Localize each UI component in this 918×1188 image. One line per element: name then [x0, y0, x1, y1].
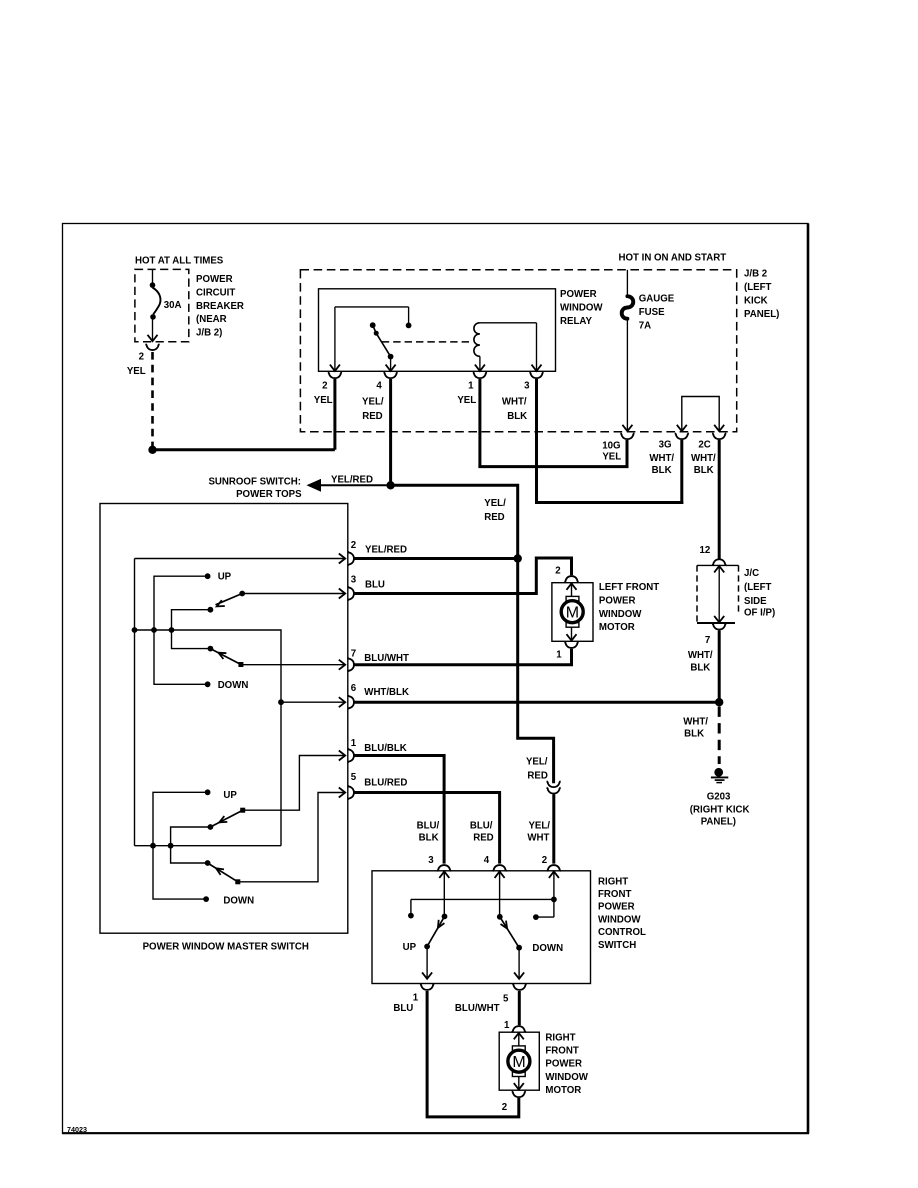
arrow into master pin 6: [339, 697, 345, 707]
connector pin 10G: [620, 433, 634, 439]
connector master pin 5: [348, 786, 354, 800]
arrow into relay pin 3: [532, 365, 542, 371]
master pivot bracket upper section: [172, 610, 211, 649]
control down lever: [500, 917, 519, 948]
arrow down to pin 1 inside motor: [571, 627, 573, 640]
svg-text:DOWN: DOWN: [218, 680, 249, 691]
wire master pin 2 YEL/RED: [354, 557, 518, 560]
relay fixed contact dot: [406, 323, 412, 329]
wire BLU master pin 3 to left motor: [354, 558, 571, 594]
arrow up to control pin 4: [495, 872, 505, 878]
svg-text:YEL: YEL: [127, 366, 146, 377]
connector master pin 6: [348, 695, 354, 709]
connector control pin 3: [437, 865, 451, 871]
svg-text:(LEFT: (LEFT: [744, 282, 772, 293]
right motor armature circle: [508, 1050, 530, 1072]
connector control pin 1: [420, 984, 434, 990]
wire relay pin 3 WHT/BLK down: [535, 379, 538, 503]
master pin 3 internal lead: [242, 593, 344, 595]
wire BLU control pin 1 to right motor pin 2: [427, 991, 519, 1117]
connector master pin 2: [348, 552, 354, 566]
wire YEL horizontal to relay pin 2: [153, 448, 335, 451]
svg-text:POWER: POWER: [545, 1059, 582, 1070]
master bus wire upper section: [135, 630, 282, 846]
connector master pin 1: [348, 749, 354, 763]
control pin 3 internal lead: [443, 872, 445, 917]
svg-text:7A: 7A: [639, 321, 651, 332]
svg-text:POWER: POWER: [196, 274, 233, 285]
arrow down to pin 7 inside J/C: [714, 616, 724, 622]
junction dot bracket to bus: [151, 627, 157, 633]
wire YEL/WHT inline connector to control switch: [552, 794, 555, 863]
master pin 6 internal lead: [281, 701, 344, 703]
arrow into J/B2 pin 10G: [622, 425, 632, 431]
svg-text:J/B 2: J/B 2: [744, 269, 767, 280]
svg-text:SWITCH: SWITCH: [598, 940, 636, 951]
svg-text:DOWN: DOWN: [532, 943, 563, 954]
svg-text:UP: UP: [223, 790, 237, 801]
svg-text:BREAKER: BREAKER: [196, 301, 244, 312]
svg-text:OF I/P): OF I/P): [744, 607, 775, 618]
svg-text:BLU/RED: BLU/RED: [364, 778, 407, 789]
junction dot control bus to pin 2: [551, 897, 557, 903]
wire relay pin 1 YEL down: [478, 379, 481, 467]
svg-text:BLU/: BLU/: [417, 821, 440, 832]
control pin 5 internal lead: [518, 948, 520, 979]
relay pin 1 internal lead: [479, 356, 481, 370]
control pin 4 internal lead: [499, 872, 501, 917]
svg-text:WHT/: WHT/: [649, 453, 674, 464]
master pivot bracket lower section: [171, 827, 211, 863]
arrow up to pin 1 inside right motor: [514, 1033, 524, 1039]
left motor upper terminal: [566, 596, 579, 601]
wire 2C WHT/BLK down to J/C: [718, 440, 721, 559]
junction block J/B 2 dashed box: [300, 270, 736, 432]
svg-text:2C: 2C: [698, 440, 710, 451]
left front power window motor box: [552, 583, 593, 642]
junction dot WHT/BLK to ground: [715, 698, 723, 706]
power window relay box: [319, 289, 556, 372]
relay actuation dashed link: [382, 341, 471, 343]
wire WHT/BLK master pin 6 to ground junction: [354, 701, 719, 704]
junction dot pin 6 branch: [278, 699, 284, 705]
svg-text:G203: G203: [707, 791, 731, 802]
svg-text:YEL/: YEL/: [528, 821, 550, 832]
right front power window control switch box: [372, 871, 591, 984]
svg-text:CIRCUIT: CIRCUIT: [196, 287, 235, 298]
connector relay pin 2: [328, 372, 342, 378]
gauge fuse 7A element: [622, 296, 634, 319]
connector relay pin 4: [384, 372, 398, 378]
svg-text:BLU/WHT: BLU/WHT: [364, 653, 409, 664]
svg-text:74023: 74023: [67, 1125, 87, 1134]
junction dot pivot bracket to bus: [169, 627, 175, 633]
J/C dashed box: [697, 564, 739, 566]
relay pin 4 internal lead: [390, 357, 392, 371]
wire WHT/BLK from J/C down: [718, 631, 721, 703]
wire left motor pin 1 to master pin 7: [354, 649, 571, 665]
svg-text:FRONT: FRONT: [545, 1046, 578, 1057]
connector pin 12 of J/C: [712, 559, 726, 565]
svg-text:1: 1: [413, 993, 419, 1004]
arrow up to pin 2 inside motor: [567, 583, 577, 589]
arrow into pin 3G: [677, 425, 687, 431]
arrow up to pin 12 inside J/C: [714, 566, 724, 572]
svg-text:RED: RED: [362, 411, 382, 422]
control left contact stub: [410, 899, 412, 913]
junction dot YEL wire to relay pin 2: [148, 446, 156, 454]
connector control pin 2: [547, 865, 561, 871]
svg-text:2: 2: [139, 352, 144, 363]
wire lever to master pin 5: [238, 793, 345, 882]
wire WHT/BLK horizontal pin3 to 3G: [535, 501, 683, 504]
control pin 1 internal lead: [426, 947, 428, 979]
wire to sunroof switch: [320, 484, 391, 486]
master pin 7 internal lead: [241, 664, 345, 666]
svg-text:UP: UP: [403, 942, 417, 953]
svg-text:12: 12: [700, 545, 711, 556]
master left feed wire: [134, 559, 136, 846]
svg-text:J/C: J/C: [744, 568, 759, 579]
svg-text:HOT AT ALL TIMES: HOT AT ALL TIMES: [135, 256, 224, 267]
fuse feed wire: [626, 270, 628, 296]
J/C internal wire: [718, 566, 720, 622]
junction dot bracket to bus lower: [150, 843, 156, 849]
breaker output lead: [152, 317, 154, 341]
master pin 2 internal lead: [135, 558, 345, 560]
svg-text:2: 2: [322, 381, 327, 392]
svg-text:KICK: KICK: [744, 295, 768, 306]
connector control pin 5: [513, 984, 527, 990]
wire YEL horizontal pin1 to 10G: [478, 465, 628, 468]
svg-text:YEL/: YEL/: [526, 757, 548, 768]
svg-text:WINDOW: WINDOW: [598, 914, 641, 925]
connector pin 2 of breaker: [146, 344, 160, 350]
arrow to sunroof switch: [308, 480, 321, 491]
control left contact dot: [408, 913, 414, 919]
svg-text:BLU/WHT: BLU/WHT: [455, 1003, 500, 1014]
junction dot YEL/RED sunroof branch: [386, 481, 394, 489]
control pivot dot pin 4: [497, 914, 503, 920]
svg-text:PANEL): PANEL): [701, 816, 736, 827]
right front power window motor box: [499, 1032, 539, 1090]
J/B2 internal bus 3G-2C: [682, 397, 719, 431]
svg-text:UP: UP: [218, 571, 232, 582]
breaker contact dot lower: [150, 314, 156, 320]
master up lever upper section: [216, 594, 243, 605]
svg-text:BLK: BLK: [652, 465, 672, 476]
arrow into relay pin 4: [386, 365, 396, 371]
svg-text:POWER WINDOW MASTER SWITCH: POWER WINDOW MASTER SWITCH: [143, 941, 309, 952]
right motor upper terminal: [512, 1046, 525, 1051]
svg-text:10G: 10G: [602, 440, 620, 451]
connector pin 1 right motor: [512, 1026, 526, 1032]
svg-text:BLU: BLU: [365, 580, 385, 591]
relay coil to pin 3 link: [480, 322, 537, 324]
wire relay pin 4 YEL/RED down: [389, 379, 392, 485]
connector master pin 7: [348, 658, 354, 672]
svg-text:J/B 2): J/B 2): [196, 328, 222, 339]
svg-text:SIDE: SIDE: [744, 596, 767, 607]
page border: [63, 224, 809, 1134]
svg-text:2: 2: [502, 1102, 507, 1113]
svg-text:YEL: YEL: [314, 395, 333, 406]
arrow into pin 2C: [714, 425, 724, 431]
svg-text:7: 7: [351, 649, 356, 660]
svg-text:BLU/BLK: BLU/BLK: [364, 743, 407, 754]
svg-text:WINDOW: WINDOW: [545, 1072, 588, 1083]
arrow into breaker pin 2: [148, 335, 158, 341]
wire 10G YEL down: [626, 440, 629, 468]
junction dot pivot bracket to bus lower: [168, 843, 174, 849]
master pivot dot down upper section: [208, 646, 214, 652]
svg-text:RELAY: RELAY: [560, 316, 592, 327]
breaker contact dot upper: [150, 282, 156, 288]
connector control pin 4: [493, 865, 507, 871]
breaker lead from hot feed: [152, 269, 154, 283]
svg-text:WHT/BLK: WHT/BLK: [364, 687, 409, 698]
svg-text:(NEAR: (NEAR: [196, 314, 227, 325]
control down lever lower dot: [516, 945, 522, 951]
wire BLU/RED master pin 5 to control pin 4: [354, 793, 499, 864]
wire YEL/RED to master switch pin 2 and down: [391, 485, 554, 783]
svg-text:3: 3: [428, 855, 434, 866]
svg-text:30A: 30A: [164, 300, 182, 311]
svg-text:5: 5: [503, 994, 509, 1005]
svg-text:BLK: BLK: [690, 662, 710, 673]
arrow into master pin 1: [339, 751, 345, 761]
svg-text:PANEL): PANEL): [744, 309, 779, 320]
relay coil: [474, 323, 480, 357]
svg-text:POWER: POWER: [560, 289, 597, 300]
master down lever upper section: [210, 649, 241, 665]
svg-text:FRONT: FRONT: [598, 889, 631, 900]
connector pin 2 left motor: [565, 576, 579, 582]
master up contact dot lower section: [205, 789, 211, 795]
connector pin 2C: [712, 433, 726, 439]
control pivot dot pin 3: [442, 914, 448, 920]
svg-text:GAUGE: GAUGE: [639, 294, 675, 305]
connector pin 3G: [675, 433, 689, 439]
arrow into master pin 2: [339, 554, 345, 564]
circuit breaker 30A element: [153, 288, 161, 315]
inline connector halves: [547, 781, 561, 787]
svg-text:BLK: BLK: [419, 832, 439, 843]
master bus wire lower section: [135, 845, 282, 847]
connector pin 1 left motor: [565, 642, 579, 648]
wire BLU/WHT control pin 5 to right motor: [518, 991, 521, 1025]
svg-text:WHT/: WHT/: [683, 716, 708, 727]
svg-text:7: 7: [705, 635, 710, 646]
svg-text:YEL/RED: YEL/RED: [331, 475, 373, 486]
right motor lower terminal: [512, 1072, 525, 1077]
relay pin 2 internal lead: [334, 307, 336, 370]
svg-text:YEL/: YEL/: [484, 498, 506, 509]
svg-text:2: 2: [542, 855, 547, 866]
power circuit breaker dashed box: [135, 269, 189, 341]
control right contact elbow: [536, 916, 554, 918]
svg-text:MOTOR: MOTOR: [599, 622, 635, 633]
svg-text:WINDOW: WINDOW: [599, 609, 642, 620]
arrow into master pin 7: [339, 660, 345, 670]
svg-text:POWER: POWER: [598, 902, 635, 913]
arrow into master pin 3: [339, 589, 345, 599]
arrow up to control pin 2: [549, 872, 559, 878]
svg-text:1: 1: [468, 381, 474, 392]
svg-text:DOWN: DOWN: [223, 896, 254, 907]
svg-text:WINDOW: WINDOW: [560, 302, 603, 313]
svg-text:HOT IN ON AND START: HOT IN ON AND START: [619, 252, 727, 263]
svg-text:SUNROOF SWITCH:: SUNROOF SWITCH:: [208, 477, 301, 488]
master up lever lower section: [210, 810, 242, 827]
arrow into relay pin 2: [330, 365, 340, 371]
relay switch lever: [373, 325, 391, 356]
wire dashed WHT/BLK to ground: [718, 707, 721, 765]
master up contact dot upper section: [205, 573, 211, 579]
svg-text:3G: 3G: [659, 440, 672, 451]
control right contact dot: [533, 914, 539, 920]
svg-text:RIGHT: RIGHT: [598, 876, 628, 887]
master contact bracket lower section: [153, 792, 208, 899]
svg-text:1: 1: [351, 738, 357, 749]
svg-text:3: 3: [351, 575, 357, 586]
svg-text:(LEFT: (LEFT: [744, 582, 772, 593]
left motor lower terminal: [566, 623, 579, 628]
wire 3G WHT/BLK down: [680, 440, 683, 504]
svg-text:2: 2: [555, 566, 560, 577]
master pivot dot up upper section: [208, 607, 214, 613]
svg-text:BLU/: BLU/: [470, 821, 493, 832]
svg-text:M: M: [566, 605, 579, 622]
svg-text:WHT/: WHT/: [502, 397, 527, 408]
wire from fuse to 10G: [626, 319, 628, 430]
connector pin 7 of J/C: [712, 624, 726, 630]
svg-text:2: 2: [351, 540, 356, 551]
svg-text:POWER TOPS: POWER TOPS: [236, 489, 302, 500]
svg-text:RED: RED: [473, 832, 493, 843]
master down lever lower section: [208, 863, 238, 882]
svg-text:YEL/RED: YEL/RED: [365, 545, 407, 556]
arrow into control pin 5: [514, 972, 524, 978]
master down contact dot upper section: [205, 681, 211, 687]
master pivot dot down lower section: [205, 860, 211, 866]
svg-text:5: 5: [351, 772, 357, 783]
junction dot feed to bus: [132, 627, 138, 633]
svg-text:4: 4: [376, 381, 382, 392]
wire BLU/BLK master pin 1 to control pin 3: [354, 756, 444, 864]
svg-text:WHT/: WHT/: [691, 453, 716, 464]
control pin 2 internal lead: [553, 872, 555, 918]
svg-text:YEL: YEL: [457, 395, 476, 406]
svg-text:M: M: [512, 1054, 525, 1071]
svg-text:LEFT FRONT: LEFT FRONT: [599, 582, 659, 593]
svg-text:YEL: YEL: [602, 452, 621, 463]
svg-text:RED: RED: [484, 512, 504, 523]
svg-text:YEL/: YEL/: [362, 397, 384, 408]
svg-text:1: 1: [504, 1020, 510, 1031]
master pivot dot up lower section: [208, 824, 214, 830]
svg-text:RIGHT: RIGHT: [545, 1033, 575, 1044]
arrow into master pin 5: [339, 788, 345, 798]
junction dot YEL/RED at master pin 2: [514, 554, 522, 562]
connector master pin 3: [348, 587, 354, 601]
arrow into control pin 1: [422, 972, 432, 978]
svg-text:4: 4: [484, 855, 490, 866]
svg-text:1: 1: [556, 650, 562, 661]
svg-text:BLK: BLK: [684, 728, 704, 739]
svg-text:RED: RED: [527, 770, 547, 781]
svg-text:3: 3: [524, 381, 530, 392]
svg-text:BLU: BLU: [393, 1003, 413, 1014]
control up lever lower dot: [424, 944, 430, 950]
svg-text:BLK: BLK: [694, 465, 714, 476]
svg-text:BLK: BLK: [507, 411, 527, 422]
control internal bus: [411, 898, 554, 900]
master down contact dot lower section: [203, 896, 209, 902]
ground G203 symbol: [714, 768, 723, 777]
master contact bracket upper section: [154, 576, 208, 684]
wire YEL dashed from breaker: [151, 352, 154, 447]
arrow up to control pin 3: [439, 872, 449, 878]
connector relay pin 1: [473, 372, 487, 378]
wire lever to master pin 1: [243, 756, 345, 811]
relay internal top link: [335, 306, 409, 308]
svg-text:FUSE: FUSE: [639, 307, 665, 318]
svg-text:6: 6: [351, 683, 357, 694]
svg-text:POWER: POWER: [599, 595, 636, 606]
control up lever: [427, 916, 444, 946]
arrow down to pin 2 inside right motor: [518, 1077, 520, 1090]
arrow into relay pin 1: [475, 365, 485, 371]
svg-text:MOTOR: MOTOR: [545, 1085, 581, 1096]
svg-text:CONTROL: CONTROL: [598, 927, 646, 938]
connector pin 2 right motor: [512, 1091, 526, 1097]
left motor armature circle: [561, 601, 583, 623]
svg-text:WHT: WHT: [527, 832, 549, 843]
svg-text:(RIGHT KICK: (RIGHT KICK: [690, 804, 750, 815]
svg-text:WHT/: WHT/: [688, 650, 713, 661]
power window master switch box: [100, 504, 348, 934]
wire relay pin 2 down: [333, 379, 336, 450]
connector relay pin 3: [530, 372, 544, 378]
